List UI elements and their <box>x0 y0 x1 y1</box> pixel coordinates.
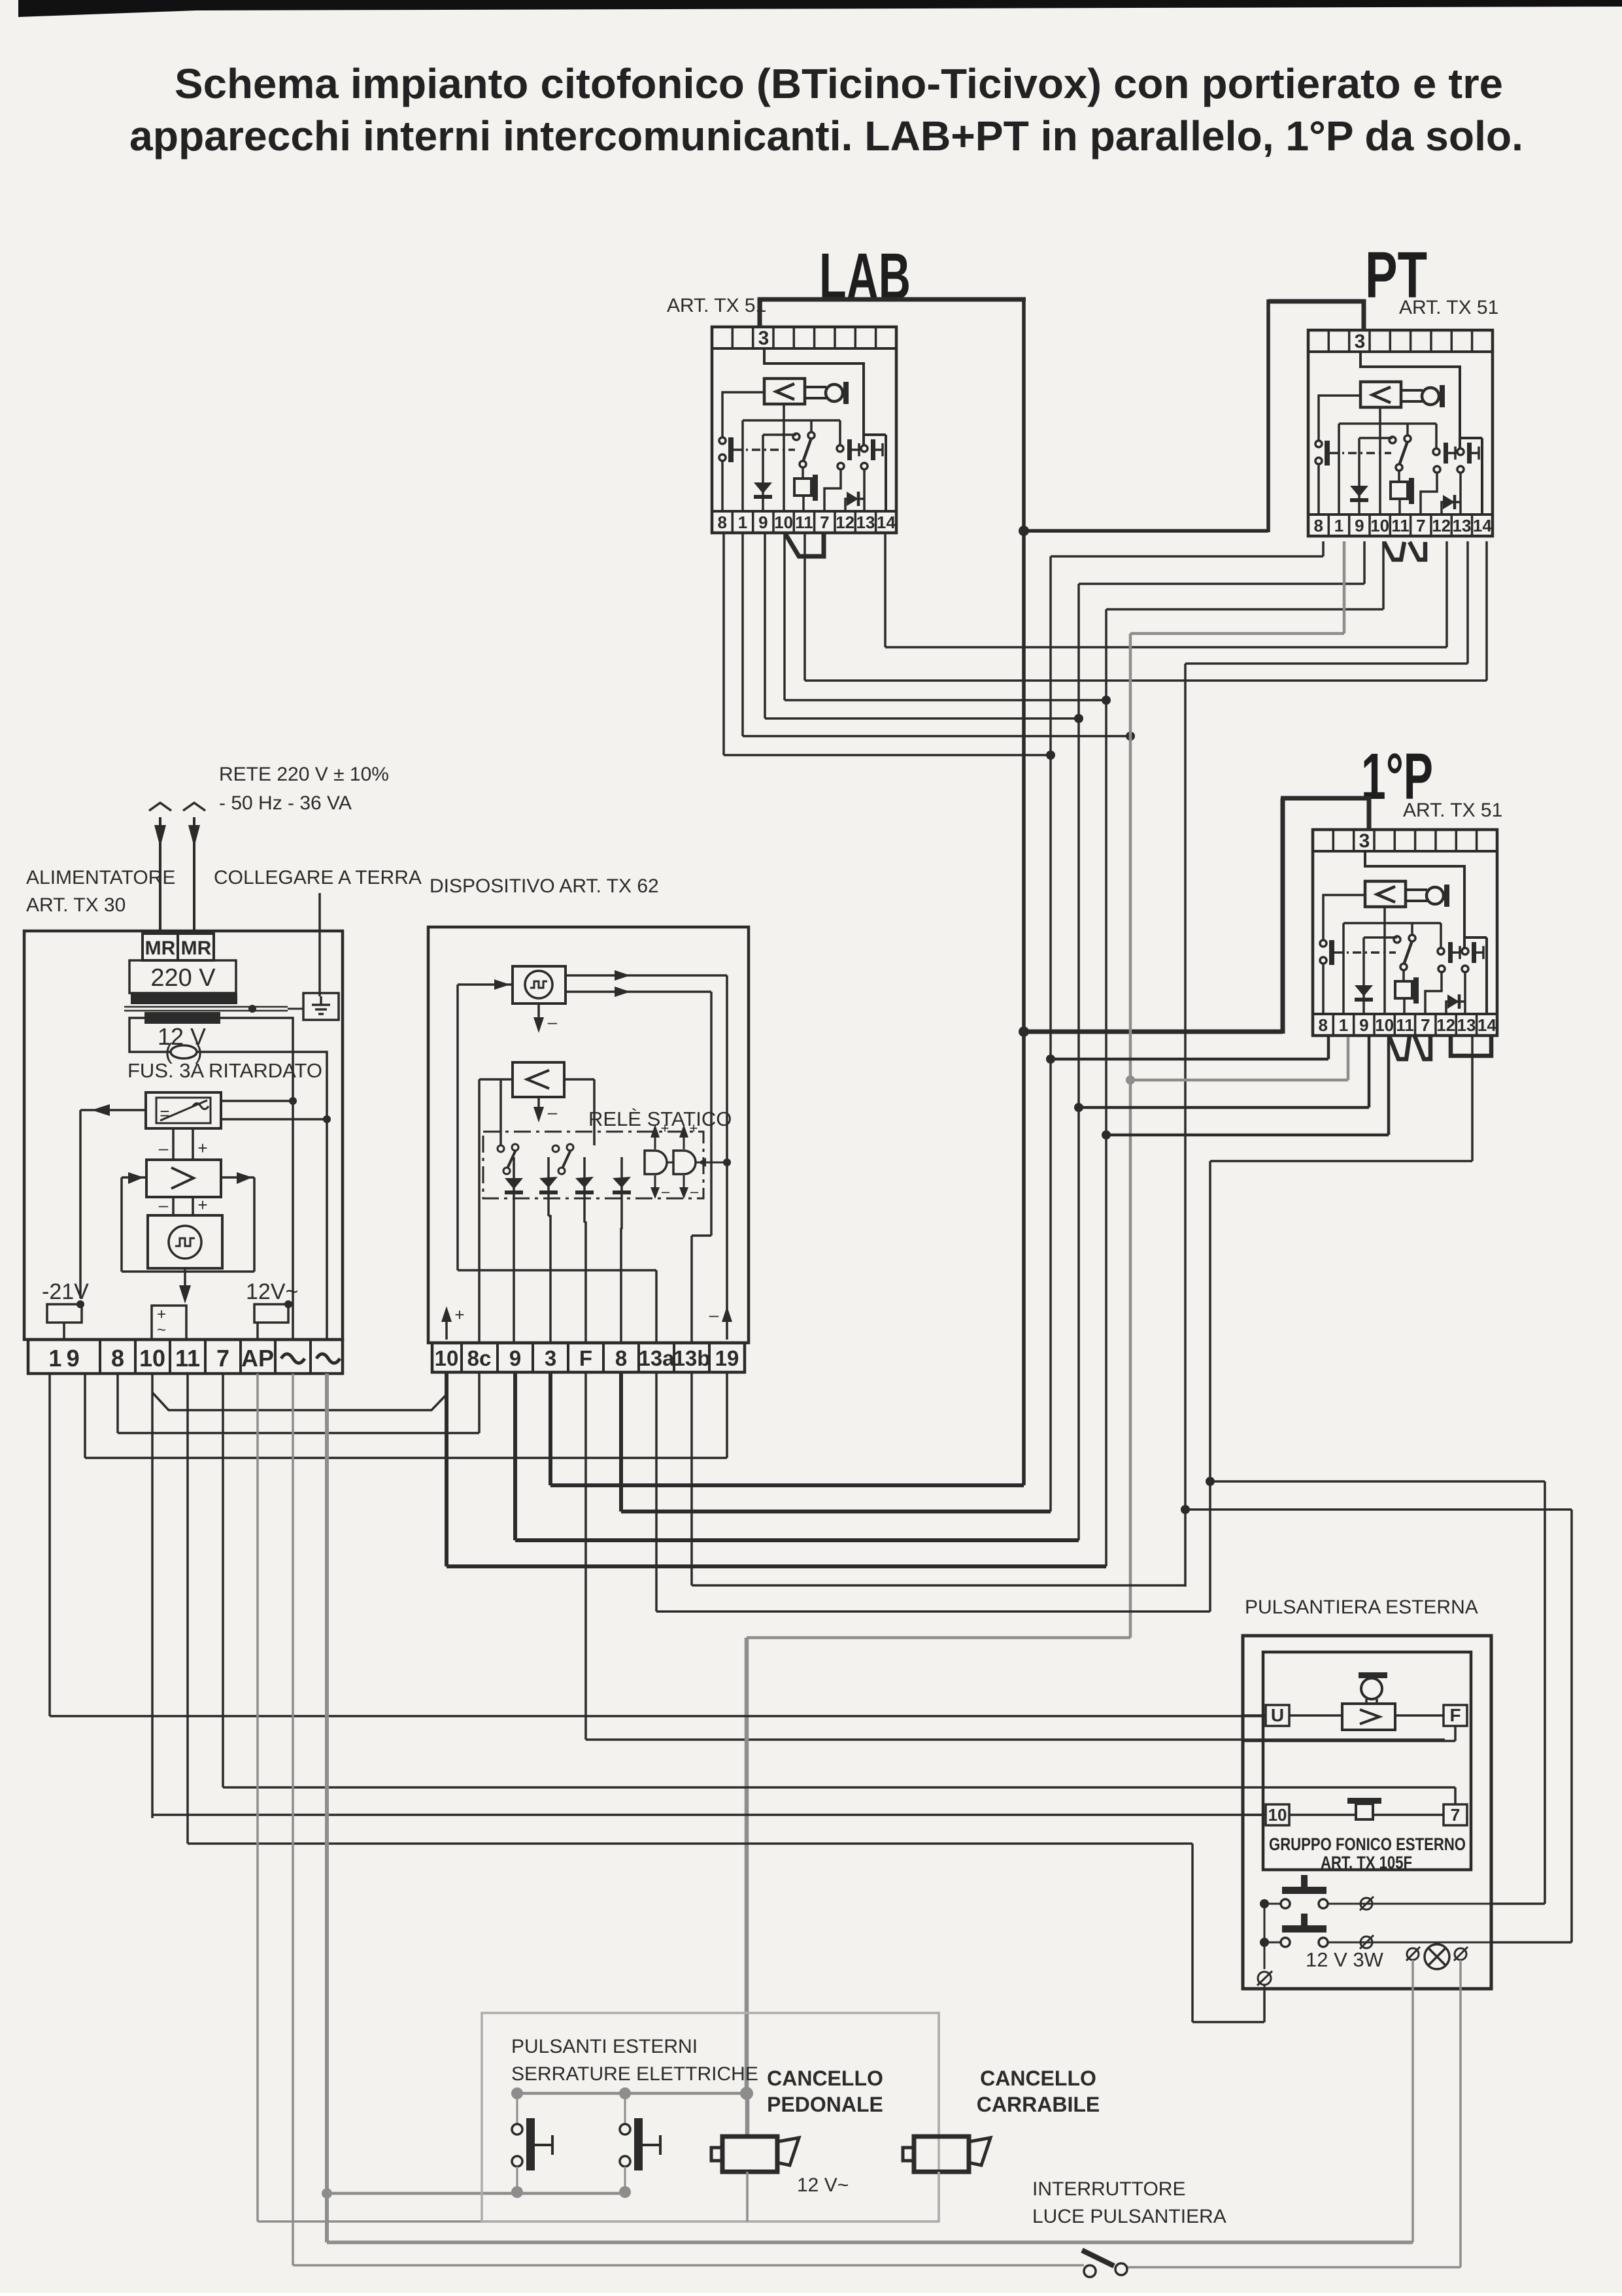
svg-text:RETE 220 V ± 10%: RETE 220 V ± 10% <box>219 764 389 785</box>
wire disp-8 drop (thick) <box>621 1372 1051 1511</box>
wire inner loop to 13a <box>458 1270 656 1343</box>
oscillator box dispositivo <box>513 966 566 1004</box>
jumper PT 11 to 7 (thick) <box>1410 542 1425 560</box>
svg-text:MR: MR <box>181 937 212 959</box>
relay diode 4 <box>613 1157 631 1343</box>
wire alim-11 to button common <box>188 1374 1264 2022</box>
relay diode 2 <box>539 1157 558 1343</box>
wire amplifier minus arrow <box>533 1097 558 1123</box>
button row 2 <box>1260 1914 1491 1949</box>
label CANCELLO PEDONALE <box>767 2067 883 2116</box>
microphone symbol <box>1359 1672 1387 1704</box>
lamp terminal right <box>1454 1947 1468 2267</box>
wire mains feed arrows <box>149 803 205 935</box>
svg-text:11: 11 <box>175 1345 200 1372</box>
svg-text:LAB: LAB <box>819 240 911 313</box>
wire net 8 branch to 1P-8 <box>1046 1037 1328 1064</box>
static relay dash-dot box <box>483 1132 703 1198</box>
wire amplifier sides to relay <box>501 1079 594 1145</box>
scan edge bar <box>18 0 1622 17</box>
label - arrow dispositivo <box>709 1305 732 1340</box>
svg-text:-21V: -21V <box>42 1279 89 1304</box>
wire LAB terminal 9 drop <box>765 533 1083 723</box>
wire disp-10 drop (thick) <box>447 1372 1106 1566</box>
intercom unit LAB ART. TX 51 <box>712 327 896 533</box>
intercom unit PT ART. TX 51 <box>1308 330 1493 536</box>
amplifier box dispositivo <box>513 1062 564 1097</box>
relay switch 2 <box>552 1144 573 1174</box>
wire net 8: PT terminal 8 drop <box>1051 541 1323 1511</box>
terminal 7 gruppo <box>1444 1804 1467 1825</box>
svg-text:8c: 8c <box>467 1346 492 1370</box>
earth symbol box <box>303 993 339 1020</box>
svg-text:+: + <box>454 1305 464 1325</box>
svg-text:7: 7 <box>1451 1805 1460 1825</box>
wire alim-7 to gruppo 7 <box>223 1374 1455 1787</box>
jumper 1P 10 to 11 (thick) <box>1389 1036 1410 1059</box>
button row 1 <box>1260 1875 1491 1910</box>
svg-text:ART. TX 51: ART. TX 51 <box>667 295 766 316</box>
wire net 9: PT terminal 9 drop <box>1079 541 1364 1540</box>
svg-text:CANCELLO: CANCELLO <box>767 2067 883 2090</box>
svg-text:ART. TX 105F: ART. TX 105F <box>1321 1853 1412 1872</box>
svg-text:GRUPPO FONICO ESTERNO: GRUPPO FONICO ESTERNO <box>1269 1834 1466 1854</box>
svg-text:–: – <box>690 1183 699 1200</box>
svg-text:PULSANTIERA ESTERNA: PULSANTIERA ESTERNA <box>1245 1596 1478 1618</box>
title text <box>129 60 1523 160</box>
svg-text:+: + <box>157 1306 166 1323</box>
external button 2 <box>620 2093 660 2192</box>
lamp symbol <box>1425 1944 1449 1969</box>
wire button supply row (gray) <box>511 2087 753 2100</box>
wire disp-F drop <box>586 1372 1445 1740</box>
wire oscillator minus arrow <box>533 1004 558 1033</box>
label PULSANTI ESTERNI SERRATURE ELETTRICHE <box>511 2036 758 2085</box>
wire LAB terminal 8 drop <box>724 533 1055 760</box>
svg-text:F: F <box>1449 1705 1461 1725</box>
svg-text:220 V: 220 V <box>150 964 216 992</box>
wire LAB terminal 14 to PT terminal 12 <box>885 533 1447 647</box>
wire alim-10 to disp-10 <box>152 1374 447 1815</box>
wire disp-9 drop (thick) <box>515 1372 1079 1540</box>
wire amplifier feedback loops <box>122 1172 254 1272</box>
transformer 220V primary <box>129 960 237 1004</box>
terminal strip alimentatore <box>28 1340 343 1374</box>
wire rectifier to -21V rail <box>80 1104 146 1298</box>
fuse FUS 3A <box>127 1039 322 1082</box>
svg-text:COLLEGARE A TERRA: COLLEGARE A TERRA <box>214 867 422 888</box>
svg-text:12V~: 12V~ <box>246 1279 298 1304</box>
speaker symbol gruppo <box>1347 1798 1381 1819</box>
wire net 1 gray elbow to button feed <box>747 1638 1130 2093</box>
svg-text:ART. TX 30: ART. TX 30 <box>26 894 126 916</box>
wire secondary to fuse and AC rails <box>129 1018 331 1340</box>
terminal U <box>1266 1705 1289 1726</box>
terminal F <box>1444 1705 1467 1726</box>
wire alim-10 to gruppo 10 <box>152 1815 1266 1818</box>
light switch symbol <box>1082 2250 1127 2277</box>
svg-text:ALIMENTATORE: ALIMENTATORE <box>26 867 175 888</box>
jumper LAB 10 to 7 (thick) <box>785 533 824 556</box>
svg-text:LUCE PULSANTIERA: LUCE PULSANTIERA <box>1032 2206 1226 2227</box>
wire alim-AC2 to buttons and lamp <box>322 1374 1413 2242</box>
power supply box ART. TX 30 <box>24 931 343 1340</box>
svg-text:8: 8 <box>111 1345 124 1372</box>
svg-text:+: + <box>197 1138 207 1158</box>
wire disp-3 drop (thick) <box>550 1372 1024 1485</box>
svg-text:10: 10 <box>435 1346 459 1370</box>
wire rectifier to amplifier <box>159 1128 208 1160</box>
logic gate 2 <box>673 1120 699 1200</box>
svg-text:F: F <box>579 1346 592 1370</box>
svg-text:10: 10 <box>139 1345 165 1372</box>
svg-text:8: 8 <box>615 1346 627 1370</box>
logic gate 1 <box>645 1120 670 1200</box>
label INTERRUTTORE LUCE PULSANTIERA <box>1032 2178 1226 2227</box>
wire 10 speaker 7 <box>1243 1814 1444 1816</box>
amplifier box alimentatore <box>146 1160 221 1197</box>
svg-text:7: 7 <box>216 1345 229 1372</box>
gruppo fonico inner box <box>1263 1652 1471 1870</box>
svg-text:–: – <box>159 1195 169 1215</box>
wire net 3 drop between units <box>1019 297 1268 1485</box>
label GRUPPO FONICO ESTERNO <box>1269 1834 1466 1872</box>
wire LAB terminal 10 drop <box>785 533 1111 705</box>
svg-text:13b: 13b <box>673 1346 711 1370</box>
svg-text:19: 19 <box>715 1346 739 1370</box>
wire rectifier AC inputs <box>221 1101 327 1119</box>
wire disp-8c to alim-8 <box>118 1372 479 1433</box>
lamp terminal left <box>1406 1947 1420 2242</box>
wire net 13a: 1P terminal 13 drop <box>1210 1037 1472 1612</box>
svg-text:~: ~ <box>157 1321 166 1339</box>
terminal strip dispositivo <box>432 1343 745 1372</box>
svg-text:10: 10 <box>1268 1805 1287 1825</box>
label + arrow dispositivo <box>441 1305 465 1340</box>
transformer 12V secondary <box>144 1012 220 1050</box>
svg-text:9: 9 <box>509 1346 521 1370</box>
wire amp left to terminal 8c <box>479 1079 501 1343</box>
wire F down and out left <box>1243 1726 1455 1741</box>
transformer core and earth tie <box>124 1005 303 1013</box>
wire 12V~ box to AP <box>254 1300 292 1340</box>
wire net 3 branch to 1P (thick) <box>1019 796 1369 1037</box>
electric lock pedonale <box>711 2093 799 2221</box>
svg-text:SERRATURE ELETTRICHE: SERRATURE ELETTRICHE <box>511 2063 758 2085</box>
svg-text:ART. TX 51: ART. TX 51 <box>1403 800 1502 821</box>
svg-text:U: U <box>1271 1705 1284 1725</box>
wire 7 up and out left <box>1454 1787 1457 1804</box>
svg-text:+: + <box>197 1195 207 1215</box>
wire net 13b branch to pulsantiera row2 <box>1181 1505 1572 1942</box>
wire net 1 branch to 1P-1 (gray) <box>1126 1037 1348 1085</box>
wire earth lead <box>318 893 321 996</box>
wire -21V to terminal 19 <box>47 1300 84 1340</box>
wire buttons return (gray) <box>511 2186 631 2198</box>
wire net 1 (gray): PT terminal 1 drop <box>1130 541 1344 1638</box>
wire net 9 branch to 1P-9 <box>1074 1037 1369 1112</box>
svg-text:apparecchi interni intercomuni: apparecchi interni intercomunicanti. LAB… <box>129 112 1523 160</box>
wire net 10 branch to 1P-10 <box>1102 1037 1389 1140</box>
wire button common left column <box>1257 1904 1272 1991</box>
svg-text:AP: AP <box>241 1345 274 1372</box>
wire net 13a branch to pulsantiera row1 <box>1206 1477 1545 1904</box>
svg-text:INTERRUTTORE: INTERRUTTORE <box>1032 2178 1185 2200</box>
svg-text:PEDONALE: PEDONALE <box>767 2093 883 2116</box>
svg-text:–: – <box>548 1012 558 1032</box>
wire net 10: PT terminal 10 drop <box>1106 541 1383 1566</box>
oscillator box alimentatore <box>148 1215 222 1268</box>
relay diode 1 <box>505 1157 523 1343</box>
relay diode 3 <box>575 1157 594 1343</box>
wire alim-19a to U <box>50 1374 1266 1716</box>
wire U amp F <box>1243 1714 1444 1717</box>
svg-text:MR: MR <box>145 937 176 959</box>
svg-text:12 V 3W: 12 V 3W <box>1306 1948 1384 1971</box>
jumper 1P 12 to 14 (thick U) <box>1451 1036 1491 1056</box>
device box ART. TX 62 <box>428 927 749 1343</box>
jumper PT 10 to 11 (thick) <box>1384 542 1404 560</box>
wire alim-AC1 to lamp via switch <box>293 1374 1461 2267</box>
wire amplifier to oscillator <box>159 1195 208 1215</box>
svg-text:Schema impianto citofonico (BT: Schema impianto citofonico (BTicino-Tici… <box>175 60 1503 107</box>
transformer MR terminals <box>143 934 214 960</box>
terminal 10 gruppo <box>1266 1804 1289 1825</box>
dc output box above terminal 10 <box>152 1306 186 1340</box>
svg-text:- 50 Hz - 36 VA: - 50 Hz - 36 VA <box>219 792 352 814</box>
svg-text:13a: 13a <box>638 1346 675 1370</box>
svg-text:12 V~: 12 V~ <box>797 2174 849 2196</box>
wire disp-13b drop <box>692 1372 1185 1585</box>
svg-text:CANCELLO: CANCELLO <box>980 2067 1096 2090</box>
svg-text:3: 3 <box>545 1346 556 1370</box>
svg-text:+: + <box>690 1120 698 1136</box>
wire oscillator outputs to right <box>566 970 727 1343</box>
svg-text:–: – <box>548 1102 558 1122</box>
wire oscillator input <box>458 979 513 1270</box>
svg-text:ART. TX 51: ART. TX 51 <box>1399 297 1498 318</box>
jumper 1P 11 to 7 (thick) <box>1415 1036 1430 1059</box>
svg-text:1 9: 1 9 <box>48 1345 79 1372</box>
relay switch 1 <box>498 1144 518 1174</box>
svg-text:–: – <box>159 1138 169 1158</box>
external button 1 <box>512 2093 552 2192</box>
pulsantiera outer box <box>1243 1636 1491 1989</box>
intercom unit 1P ART. TX 51 <box>1313 830 1497 1036</box>
svg-text:PULSANTI ESTERNI: PULSANTI ESTERNI <box>511 2036 698 2057</box>
wire oscillator output arrow <box>179 1268 191 1304</box>
wire net 13b: PT terminal 13 drop <box>1185 541 1468 1587</box>
wire disp-19 to alim-19 <box>85 1372 727 1458</box>
wire disp-13a drop <box>656 1372 1210 1612</box>
electric lock carrabile <box>903 2013 990 2221</box>
svg-text:–: – <box>662 1183 670 1200</box>
svg-text:+: + <box>661 1120 669 1136</box>
wire net 3: LAB-3 to PT-3 top run <box>758 297 1366 330</box>
label CANCELLO CARRABILE <box>977 2067 1100 2116</box>
svg-text:CARRABILE: CARRABILE <box>977 2093 1100 2116</box>
svg-text:DISPOSITIVO ART. TX 62: DISPOSITIVO ART. TX 62 <box>430 875 659 897</box>
svg-text:=: = <box>160 1104 169 1123</box>
wire LAB terminal 11 drop <box>805 533 1487 681</box>
wire LAB terminal 1 drop <box>743 533 1135 741</box>
wire gate links <box>667 1158 731 1167</box>
svg-text:–: – <box>709 1305 719 1325</box>
gruppo amplifier box <box>1342 1704 1395 1730</box>
rectifier box <box>146 1092 221 1128</box>
wire alim-AP to lock common <box>258 1374 939 2221</box>
external buttons gray box <box>482 2013 939 2221</box>
